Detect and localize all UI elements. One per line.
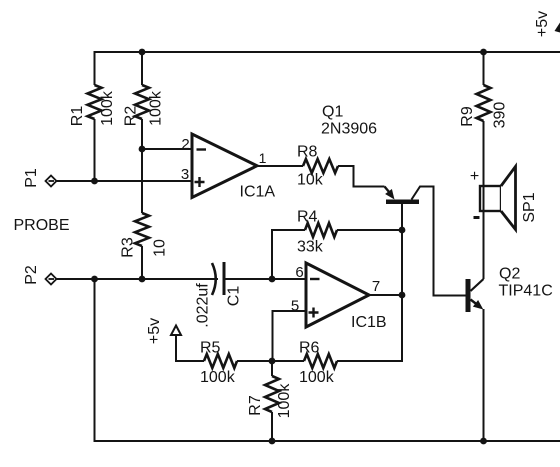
wire P2 branch down and bottom rail (95, 279, 560, 441)
wire Q2 emitter down to rail (483, 309, 485, 441)
wire R3 bottom to P2 line (141, 246, 143, 279)
svg-text:3: 3 (181, 166, 189, 183)
svg-text:390: 390 (492, 102, 509, 129)
svg-text:100k: 100k (299, 369, 335, 386)
wire pin2 line (142, 148, 193, 150)
junction bias node (269, 358, 276, 365)
transistor Q1 (385, 187, 420, 205)
svg-text:C1: C1 (226, 286, 243, 307)
svg-text:+: + (470, 168, 479, 185)
junction R3 P2 line (139, 276, 146, 283)
svg-text:100k: 100k (276, 383, 293, 419)
resistor R1 (88, 85, 102, 119)
svg-text:5: 5 (291, 298, 299, 315)
wire Q1 base vertical and R6 right lead (337, 203, 402, 361)
wire R8 to Q1 emitter (338, 166, 385, 187)
svg-text:R9: R9 (459, 106, 476, 127)
wire P1 line (56, 180, 193, 182)
wire C1 to pin6 (224, 278, 307, 280)
junction top rail R2 (139, 49, 146, 56)
wire R4 right lead to node (337, 229, 402, 231)
svg-text:R2: R2 (123, 106, 140, 127)
svg-text:10: 10 (152, 239, 169, 257)
svg-text:R1: R1 (69, 106, 86, 127)
svg-text:.022uf: .022uf (195, 283, 212, 328)
connector P2 (46, 274, 57, 285)
wire pin7 output (368, 294, 402, 296)
svg-text:1: 1 (259, 150, 267, 166)
svg-text:R8: R8 (297, 144, 318, 161)
resistor R3 (135, 213, 149, 246)
resistor R9 (477, 85, 491, 121)
svg-text:Q1: Q1 (322, 104, 343, 121)
svg-text:TIP41C: TIP41C (499, 283, 553, 300)
+5v arrow bottom (171, 326, 181, 336)
wire pin5 line down to bias node (273, 311, 308, 361)
resistor R4 (305, 223, 337, 237)
transistor Q2 (466, 279, 484, 312)
svg-text:+5v: +5v (534, 11, 551, 37)
junction C1 pin6 (269, 276, 276, 283)
wire R6 left lead (272, 360, 304, 362)
junction Q2 rail (480, 438, 487, 445)
wire IC1A out to R8 (256, 165, 303, 167)
svg-text:R6: R6 (299, 340, 320, 357)
svg-text:2N3906: 2N3906 (321, 121, 377, 138)
junction R1 P1 line (91, 178, 98, 185)
junction P2 drop (91, 276, 98, 283)
svg-text:R7: R7 (247, 395, 264, 416)
svg-text:100k: 100k (200, 369, 236, 386)
svg-text:2: 2 (181, 136, 189, 153)
svg-text:IC1B: IC1B (351, 314, 387, 331)
svg-text:P1: P1 (23, 168, 40, 188)
wire Q1 collector to Q2 base (412, 187, 466, 296)
svg-text:IC1A: IC1A (240, 184, 276, 201)
wire R5 leads and +5v drop (176, 335, 272, 361)
junction R7 rail (269, 438, 276, 445)
svg-text:R5: R5 (200, 340, 221, 357)
svg-text:R4: R4 (297, 209, 318, 226)
capacitor C1 (212, 262, 224, 295)
svg-text:+5v: +5v (146, 318, 163, 344)
wire P2 line to C1 (56, 278, 218, 280)
junction R4 node (399, 227, 406, 234)
resistor R7 (265, 376, 279, 412)
junction pin2 R2 (139, 146, 146, 153)
op-amp U2 IC1B (306, 263, 369, 327)
resistor R6 (304, 354, 337, 368)
svg-text:SP1: SP1 (521, 192, 538, 222)
resistor R8 (303, 159, 338, 173)
speaker SP1 (480, 167, 516, 230)
svg-text:Q2: Q2 (499, 266, 520, 283)
wire +5v top rail (95, 52, 560, 85)
resistor R2 (135, 85, 149, 119)
op-amp U1 IC1A (192, 134, 257, 198)
svg-text:PROBE: PROBE (14, 217, 70, 234)
svg-text:7: 7 (372, 278, 380, 295)
connector P1 (46, 176, 57, 187)
wire R2 bottom to R3 top (141, 119, 143, 213)
svg-text:R3: R3 (120, 237, 137, 258)
+5v arrow top right (cut off) (555, 23, 560, 33)
resistor R5 (204, 354, 237, 368)
wire C1 node riser to R4 (272, 230, 305, 279)
wire speaker line R9 to Q2 collector (483, 121, 485, 279)
wire R2 top lead (141, 52, 143, 85)
junction pin7 node (399, 292, 406, 299)
svg-text:100k: 100k (99, 90, 116, 126)
wire R7 leads (271, 361, 273, 441)
svg-text:10k: 10k (297, 172, 324, 189)
svg-text:P2: P2 (23, 265, 40, 285)
svg-text:100k: 100k (148, 90, 165, 126)
junction top rail R9 (480, 49, 487, 56)
wire R9 top lead (483, 52, 485, 85)
label speaker minus (474, 216, 480, 219)
wire R1 bottom lead to P1 line (94, 119, 96, 181)
svg-text:33k: 33k (297, 239, 324, 256)
svg-text:6: 6 (295, 264, 303, 281)
